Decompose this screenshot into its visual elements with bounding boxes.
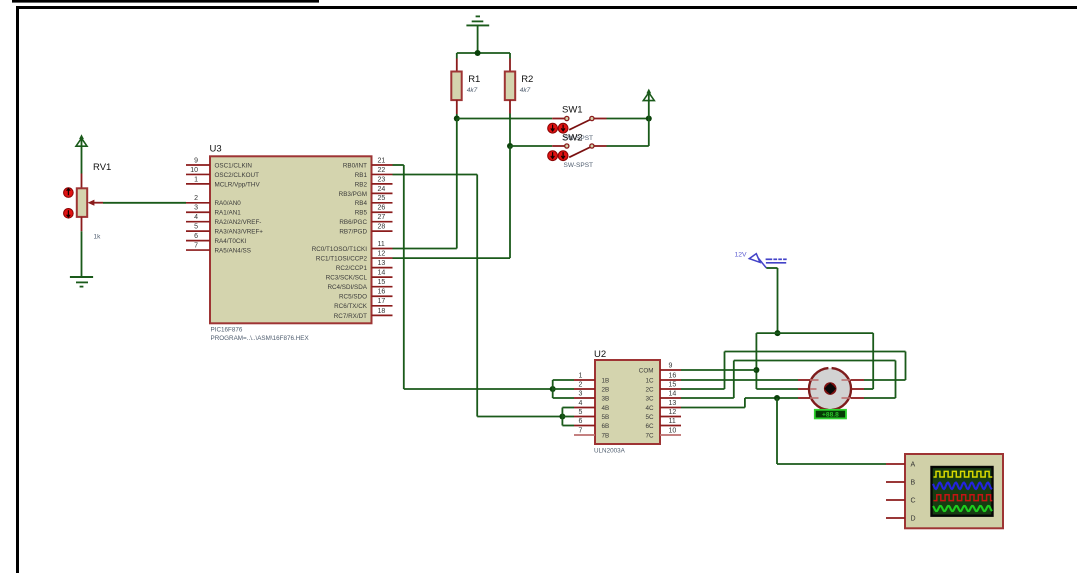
switch SW2 — [552, 144, 606, 157]
svg-text:3: 3 — [579, 390, 583, 397]
RV1 adjust buttons — [64, 188, 74, 218]
SW2 toggle buttons — [548, 151, 568, 161]
svg-text:7B: 7B — [602, 432, 610, 439]
svg-text:24: 24 — [378, 186, 386, 193]
svg-text:10: 10 — [190, 167, 198, 174]
svg-text:14: 14 — [669, 390, 677, 397]
microcontroller U3 PIC16F876 body — [210, 156, 372, 323]
svg-text:1k: 1k — [94, 234, 102, 241]
svg-text:C: C — [911, 498, 916, 505]
svg-text:RA3/AN3/VREF+: RA3/AN3/VREF+ — [215, 229, 264, 236]
wire RB1 vertical down — [476, 175, 478, 417]
U3 pin names left — [215, 162, 264, 254]
svg-text:1B: 1B — [602, 377, 610, 384]
svg-text:4C: 4C — [645, 405, 654, 412]
svg-text:SW1: SW1 — [562, 104, 583, 115]
wire 2C loop to motor right pin1 — [681, 352, 906, 390]
svg-text:4: 4 — [579, 400, 583, 407]
svg-text:5: 5 — [194, 224, 198, 231]
svg-text:RC2/CCP1: RC2/CCP1 — [336, 265, 368, 272]
svg-text:RA1/AN1: RA1/AN1 — [215, 210, 242, 217]
svg-text:A: A — [911, 462, 916, 469]
node 12V rail junction — [775, 330, 781, 336]
svg-text:RV1: RV1 — [93, 162, 111, 173]
resistor R2 — [505, 53, 515, 146]
svg-text:R1: R1 — [468, 74, 480, 85]
svg-text:RB0/INT: RB0/INT — [343, 162, 367, 169]
svg-text:RC5/SDO: RC5/SDO — [339, 294, 367, 301]
wire R1/SW1 column down to RC0 — [456, 119, 458, 249]
resistor R1 — [451, 53, 461, 119]
stepper motor body — [809, 368, 851, 410]
svg-text:11: 11 — [378, 241, 385, 248]
svg-text:12V: 12V — [735, 252, 748, 259]
svg-text:5B: 5B — [602, 414, 610, 421]
svg-text:RA2/AN2/VREF-: RA2/AN2/VREF- — [215, 219, 262, 226]
svg-text:1: 1 — [579, 372, 583, 379]
oscilloscope channel labels — [911, 462, 916, 523]
node motor pin3 / scope branch — [774, 395, 780, 401]
svg-text:6: 6 — [579, 418, 583, 425]
node U2 1B-3B tie — [550, 386, 556, 392]
wire RB0 vertical down — [403, 165, 405, 389]
wire 3C loop to motor right pin3 — [681, 361, 896, 399]
motor rpm display +88.8 — [815, 410, 846, 419]
motor pin stubs right — [851, 380, 865, 398]
svg-text:RB6/PGC: RB6/PGC — [339, 219, 367, 226]
svg-text:U3: U3 — [210, 144, 222, 155]
wire branch down to oscilloscope — [777, 398, 886, 464]
wire SW1 to power node — [607, 118, 649, 120]
svg-text:18: 18 — [378, 308, 386, 315]
U3 pin numbers left (9,10,1,2,3,4,5,6,7) — [190, 157, 198, 249]
svg-text:B: B — [911, 480, 916, 487]
node COM junction — [753, 367, 759, 373]
ground (top, above R1/R2) — [466, 16, 489, 25]
wire RV1 bottom to ground — [81, 231, 83, 277]
battery terminal 12V (blue) — [749, 254, 786, 268]
svg-text:5: 5 — [579, 409, 583, 416]
svg-text:RC6/TX/CK: RC6/TX/CK — [334, 303, 368, 310]
svg-text:9: 9 — [194, 157, 198, 164]
wire RB0 to U2 inputs — [404, 388, 553, 390]
wire top rail R1-R2 — [457, 52, 510, 54]
U3 right pin stubs — [372, 165, 393, 315]
svg-text:RC4/SDI/SDA: RC4/SDI/SDA — [327, 284, 367, 291]
wire 1C to motor left pin1 — [681, 379, 798, 381]
node SW1 right junction — [646, 116, 652, 122]
svg-text:13: 13 — [378, 260, 386, 267]
svg-text:10: 10 — [669, 427, 677, 434]
svg-text:OSC2/CLKOUT: OSC2/CLKOUT — [215, 172, 260, 179]
svg-text:13: 13 — [669, 400, 677, 407]
scope trace A (yellow square wave) — [934, 471, 993, 477]
wire 12V leg to motor left pin2 — [756, 388, 798, 390]
scope trace B (blue wave) — [933, 483, 992, 490]
wire RV1 wiper to U3 RA0 — [103, 202, 186, 204]
wire RB0 (pin 21) right — [393, 164, 404, 166]
svg-text:6C: 6C — [645, 423, 654, 430]
svg-text:5C: 5C — [645, 414, 654, 421]
svg-text:U2: U2 — [594, 349, 606, 360]
wire RB1 to U2 inputs — [477, 416, 562, 418]
svg-text:RC7/RX/DT: RC7/RX/DT — [334, 313, 367, 320]
node R2/SW2 junction — [507, 143, 513, 149]
svg-text:SW2: SW2 — [562, 133, 583, 144]
motor hidden pins (pink) — [810, 380, 850, 398]
svg-text:4B: 4B — [602, 405, 610, 412]
ground (below RV1) — [70, 277, 93, 287]
svg-text:RB2: RB2 — [355, 181, 368, 188]
scope trace C (red square wave) — [934, 495, 993, 501]
svg-text:12: 12 — [669, 409, 677, 416]
svg-text:1: 1 — [194, 176, 198, 183]
svg-text:23: 23 — [378, 176, 386, 183]
U2 pin numbers left (1-7) — [579, 372, 583, 434]
svg-text:+88.8: +88.8 — [822, 412, 839, 419]
svg-text:1C: 1C — [645, 377, 654, 384]
node top rail junction — [475, 50, 481, 56]
driver U2 ULN2003A body — [595, 360, 660, 444]
node R1/SW1 junction — [454, 116, 460, 122]
svg-text:RC1/T1OSI/CCP2: RC1/T1OSI/CCP2 — [316, 255, 368, 262]
wire R2/SW2 column down to RC1 — [509, 146, 511, 258]
U3 left pin stubs — [186, 165, 210, 250]
wire 4C step to motor left pin3 — [681, 398, 798, 408]
svg-text:SW-SPST: SW-SPST — [564, 162, 594, 169]
oscilloscope pin stubs A-D — [886, 464, 905, 518]
svg-text:28: 28 — [378, 224, 386, 231]
svg-text:7C: 7C — [645, 432, 654, 439]
svg-text:14: 14 — [378, 270, 386, 277]
svg-text:ULN2003A: ULN2003A — [594, 447, 626, 454]
power terminal (up arrow) at RV1 — [76, 134, 87, 173]
svg-text:9: 9 — [669, 362, 673, 369]
U2 right pin stubs COM,1C-7C — [660, 370, 681, 435]
oscilloscope screen — [932, 467, 993, 516]
potentiometer RV1 — [77, 174, 103, 232]
wire SW2 to right riser — [607, 145, 649, 147]
scope trace D (green wave) — [933, 506, 992, 511]
svg-text:7: 7 — [194, 242, 198, 249]
wire ground to top rail — [477, 25, 479, 53]
svg-text:26: 26 — [378, 205, 386, 212]
svg-text:3: 3 — [194, 205, 198, 212]
svg-text:15: 15 — [378, 279, 386, 286]
svg-text:7: 7 — [579, 427, 583, 434]
wire RC1 row (pin 12) — [393, 257, 511, 259]
motor pin stubs left — [798, 380, 810, 398]
power terminal (up arrow) at switches — [643, 89, 654, 119]
svg-text:COM: COM — [639, 367, 654, 374]
wire R2 junction to SW2 — [510, 145, 552, 147]
svg-text:2: 2 — [579, 381, 583, 388]
svg-text:4k7: 4k7 — [467, 87, 478, 94]
svg-text:6B: 6B — [602, 423, 610, 430]
node U2 4B-6B tie — [559, 414, 565, 420]
svg-text:2C: 2C — [645, 386, 654, 393]
svg-text:16: 16 — [378, 289, 386, 296]
U3 pin names right — [312, 162, 368, 319]
svg-text:4k7: 4k7 — [520, 87, 531, 94]
svg-text:25: 25 — [378, 195, 386, 202]
U2 pin names right COM,1C-7C — [639, 367, 654, 439]
wire 12V top rail — [756, 332, 873, 334]
svg-text:RC0/T1OSO/T1CKI: RC0/T1OSO/T1CKI — [312, 246, 368, 253]
svg-text:RB5: RB5 — [355, 210, 368, 217]
svg-text:PROGRAM=..\..\ASM\16F876.HEX: PROGRAM=..\..\ASM\16F876.HEX — [211, 335, 310, 342]
svg-text:RB1: RB1 — [355, 172, 368, 179]
svg-text:MCLR/Vpp/THV: MCLR/Vpp/THV — [215, 181, 261, 188]
svg-text:RC3/SCK/SCL: RC3/SCK/SCL — [326, 275, 368, 282]
wire tie bracket 1B-3B — [553, 380, 574, 398]
svg-text:6: 6 — [194, 233, 198, 240]
svg-text:16: 16 — [669, 372, 677, 379]
U3 pin numbers right (21-28, 11-18) — [378, 157, 386, 314]
svg-text:RB4: RB4 — [355, 200, 368, 207]
svg-text:21: 21 — [378, 157, 386, 164]
wire power node down to SW2 — [648, 119, 650, 147]
svg-text:2B: 2B — [602, 386, 610, 393]
U2 left pin stubs 1B-7B — [574, 380, 595, 435]
svg-text:R2: R2 — [521, 74, 533, 85]
svg-text:OSC1/CLKIN: OSC1/CLKIN — [215, 162, 253, 169]
wire 12V rail left leg down — [755, 333, 757, 389]
svg-text:22: 22 — [378, 167, 386, 174]
motor shaft center — [824, 382, 837, 395]
svg-text:3C: 3C — [645, 395, 654, 402]
wire RC0 row (pin 11) — [393, 248, 457, 250]
svg-text:RA5/AN4/SS: RA5/AN4/SS — [215, 247, 251, 254]
svg-text:RA0/AN0: RA0/AN0 — [215, 200, 242, 207]
wire R1 junction to SW1 — [457, 118, 552, 120]
svg-text:12: 12 — [378, 250, 386, 257]
svg-text:PIC16F876: PIC16F876 — [211, 327, 243, 334]
svg-text:RA4/T0CKI: RA4/T0CKI — [215, 238, 247, 245]
svg-text:RB7/PGD: RB7/PGD — [339, 229, 367, 236]
svg-text:2: 2 — [194, 195, 198, 202]
svg-text:4: 4 — [194, 214, 198, 221]
wire 12V rail right leg down — [872, 333, 874, 389]
svg-text:27: 27 — [378, 214, 386, 221]
U2 pin numbers right (9,16,15,14,13,12,11,10) — [669, 362, 677, 434]
U2 pin names left 1B-7B — [602, 377, 610, 439]
svg-text:15: 15 — [669, 381, 677, 388]
wire tie bracket 4B-6B — [562, 408, 574, 426]
oscilloscope body — [905, 454, 1003, 528]
switch SW1 — [552, 116, 606, 129]
wire 12V to riser — [766, 268, 777, 333]
svg-text:RB3/PGM: RB3/PGM — [339, 191, 367, 198]
wire COM to U2 — [681, 369, 756, 371]
svg-text:3B: 3B — [602, 395, 610, 402]
wire right leg to motor right pin2 — [864, 388, 873, 390]
wire RB1 (pin 22) right — [393, 174, 478, 176]
svg-text:17: 17 — [378, 298, 386, 305]
SW1 toggle buttons — [548, 123, 568, 133]
svg-text:D: D — [911, 516, 916, 523]
svg-text:11: 11 — [669, 418, 676, 425]
